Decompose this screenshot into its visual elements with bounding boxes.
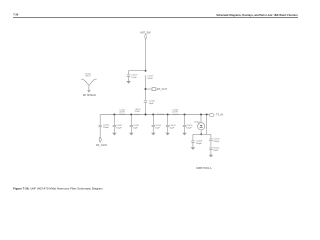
node dot bus 5 — [167, 114, 169, 116]
node junction dot A — [145, 70, 147, 72]
node junction dot B — [145, 88, 147, 90]
wire junction A left — [129, 71, 146, 75]
svg-text:9.1pF: 9.1pF — [131, 77, 137, 79]
wire cap to jack — [99, 127, 101, 137]
svg-text:RX_OUT: RX_OUT — [157, 88, 168, 91]
wire diode to lower node — [200, 130, 202, 135]
wire shield down — [88, 85, 90, 90]
node dot bus 8 — [206, 114, 208, 116]
svg-text:100pF: 100pF — [196, 143, 203, 145]
node dot bus 7 — [200, 114, 202, 116]
capacitor C0405 shunt — [183, 115, 186, 133]
wire bus8 down — [206, 115, 208, 135]
inductor L0402 — [134, 113, 140, 115]
connector J0402 antenna switch (teardrop) — [145, 34, 147, 39]
capacitor C0401 shunt — [113, 115, 116, 133]
shield tab left — [81, 78, 84, 80]
capacitor C0407 — [127, 75, 130, 81]
node dot bus 4 — [152, 114, 154, 116]
svg-text:RF SHIELD: RF SHIELD — [83, 94, 96, 97]
diode D0401 (circled) — [198, 123, 205, 130]
ground (C0408) — [191, 147, 195, 150]
inductor L0405 — [145, 75, 147, 80]
wire to bus — [145, 102, 147, 114]
svg-text:8.2pF: 8.2pF — [186, 127, 192, 129]
ground (R0401) — [209, 155, 213, 158]
svg-text:Schematic Diagrams, Overlays,: Schematic Diagrams, Overlays, and Parts … — [216, 14, 298, 17]
wire lower node line — [193, 133, 211, 135]
svg-text:15pF: 15pF — [155, 127, 160, 129]
wire main line mid — [145, 80, 147, 100]
wire stub to RX_OUT — [146, 88, 152, 90]
node dot bus 6 — [184, 114, 186, 116]
capacitor C0408 shunt — [191, 134, 194, 147]
inductor L0406 — [156, 113, 164, 115]
svg-text:27nH: 27nH — [135, 111, 140, 113]
ground (C0401) — [112, 133, 116, 136]
svg-text:100K: 100K — [213, 150, 218, 152]
connector TX_IN (oval) — [209, 113, 214, 116]
svg-text:8.2pF: 8.2pF — [116, 127, 122, 129]
node dot bus 3 (main) — [145, 114, 147, 116]
ground (C0402) — [129, 133, 133, 136]
capacitor C0402 shunt — [130, 115, 133, 133]
connector J0401 RF jack (teardrop) — [99, 137, 101, 142]
wire ANT_SW down to junction — [145, 39, 147, 70]
svg-text:56pF: 56pF — [149, 103, 154, 105]
node dot bus 2 — [130, 114, 132, 116]
inductor L0401 — [119, 113, 125, 115]
ground (C0404) — [165, 133, 169, 136]
wire bus7 down to diode — [200, 115, 202, 123]
shield tab right — [94, 78, 97, 80]
svg-text:22nH: 22nH — [172, 112, 177, 114]
svg-text:150pF: 150pF — [103, 127, 110, 129]
ground (C0403) — [151, 133, 155, 136]
svg-text:Figure 7-26: UHF (403-470 MHz: Figure 7-26: UHF (403-470 MHz) Harmonic … — [13, 187, 103, 191]
svg-text:470pF: 470pF — [213, 141, 220, 143]
wire left drop to jack — [99, 115, 101, 126]
ground (C0405) — [182, 133, 186, 136]
connector box RX_OUT — [152, 88, 156, 91]
svg-text:TX_IN: TX_IN — [216, 114, 223, 117]
ground arrow RF SHIELD — [87, 90, 91, 92]
capacitor C0400 — [99, 125, 102, 126]
svg-text:RF_JACK: RF_JACK — [96, 144, 107, 147]
svg-text:22nH: 22nH — [119, 112, 124, 114]
svg-text:15pF: 15pF — [133, 127, 138, 129]
capacitor C0409 — [209, 134, 212, 147]
node dot lower — [200, 133, 202, 135]
svg-text:7-26: 7-26 — [13, 14, 19, 17]
svg-text:SHLD: SHLD — [85, 76, 91, 78]
svg-text:15pF: 15pF — [169, 127, 174, 129]
wire shield right diagonal — [89, 80, 94, 86]
wire bus horizontal — [100, 114, 209, 116]
capacitor C0406 — [144, 101, 147, 102]
capacitor C0403 shunt — [152, 115, 155, 133]
svg-text:39nH: 39nH — [148, 78, 153, 80]
capacitor C0404 shunt — [166, 115, 169, 133]
inductor L0403 — [173, 113, 179, 115]
node dot bus 1 — [113, 114, 115, 116]
wire shield left diagonal — [84, 80, 89, 86]
header rule — [13, 17, 298, 19]
svg-text:8486577Z02-A: 8486577Z02-A — [196, 167, 212, 170]
resistor R0401 — [209, 148, 212, 155]
ground (C0407) — [126, 81, 130, 84]
wire label leader — [198, 122, 199, 125]
